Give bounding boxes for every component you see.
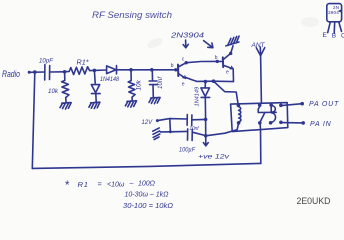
node PA OUT end [300, 102, 304, 106]
node Q2 base [216, 60, 219, 63]
svg-text:e: e [182, 82, 185, 88]
svg-text:3904: 3904 [328, 10, 339, 15]
diode D2 1N4148 (series) [107, 66, 117, 74]
relay RL1 box [231, 103, 288, 132]
svg-text:12V: 12V [142, 120, 154, 126]
label 10k (left) [48, 88, 59, 95]
transistor Q1 2N3904 [178, 63, 186, 79]
label 10k (rotated) [136, 79, 143, 90]
label PA IN [310, 121, 332, 128]
label Radio [2, 69, 20, 79]
wire Q2 collector to chassis [231, 46, 233, 54]
note R1 table row 2 [125, 192, 170, 199]
wire down to C5 row [169, 119, 172, 132]
node C5 row [169, 130, 172, 133]
wire node C to Q1 base [131, 69, 178, 71]
ground G3 [125, 101, 136, 107]
node A [63, 70, 67, 74]
svg-text:+ve 12v: +ve 12v [198, 154, 230, 161]
wire D2 to node C [117, 69, 132, 71]
svg-text:2E0UKD: 2E0UKD [297, 196, 331, 207]
node +12 top [204, 118, 208, 122]
antenna symbol [256, 47, 264, 56]
node PA IN end [301, 121, 305, 125]
wire box left edge [32, 72, 35, 168]
callsign 2E0UKD [297, 196, 331, 207]
faint scan smudges (background) [146, 17, 319, 50]
resistor R3 10k (vertical, mid) [128, 70, 135, 101]
node emitter junction [212, 79, 216, 83]
chassis ground G5 [226, 36, 239, 46]
TO-92 leg E [328, 22, 331, 33]
svg-text:RF Sensing switch: RF Sensing switch [92, 10, 172, 20]
svg-text:2N3904: 2N3904 [170, 33, 204, 40]
node box top-left junction [33, 70, 37, 74]
svg-text:R1: R1 [78, 180, 89, 189]
title RF Sensing switch [92, 10, 172, 20]
node Q1 collector [185, 61, 188, 64]
wire junction to relay coil [214, 81, 239, 105]
svg-text:e: e [226, 70, 229, 76]
label R1* [77, 60, 89, 67]
capacitor C1 10pF [45, 65, 50, 81]
svg-text:c: c [182, 57, 185, 63]
svg-text:Radio: Radio [2, 69, 20, 79]
svg-text:30-100 = 10kΩ: 30-100 = 10kΩ [123, 203, 174, 210]
svg-text:B: B [332, 32, 336, 39]
svg-text:10nf: 10nf [190, 126, 200, 132]
label +ve 12v [198, 154, 230, 161]
label 2N3904 with pointer arrows [170, 33, 204, 40]
node radio input [28, 71, 31, 74]
TO-92 package outline U1 [327, 4, 342, 22]
TO-92 pin labels E B C [323, 32, 344, 39]
node Q2 collector [229, 52, 232, 55]
ground G4 [149, 97, 160, 103]
transistor Q2 2N3904 [217, 53, 233, 69]
label ANT [251, 42, 266, 49]
wire antenna down [260, 56, 263, 103]
svg-text:PA OUT: PA OUT [309, 101, 339, 108]
svg-text:b: b [171, 63, 174, 69]
diode D3 1N4148 (vertical) [201, 82, 210, 120]
label 10nf (rotated) [157, 76, 164, 89]
resistor R1 (horizontal zigzag) [65, 67, 95, 75]
svg-text:10pF: 10pF [39, 58, 54, 65]
svg-text:–: – [129, 181, 134, 188]
TO-92 leg B [333, 22, 336, 33]
label 1N4149 (rotated) [195, 87, 201, 107]
wire Q1 collector to Q2 base [186, 61, 217, 62]
relay contact poles [258, 103, 283, 124]
squiggle ground G6 [160, 131, 170, 133]
wire coil return to +12 node [206, 123, 239, 136]
relay coil [237, 103, 241, 124]
ground G2 [89, 102, 100, 108]
Q2 pin letters [215, 55, 229, 76]
svg-text:ANT: ANT [251, 42, 266, 49]
svg-text:10k: 10k [48, 88, 59, 95]
label 10nf [190, 126, 200, 132]
note R1 table row 3 [123, 203, 174, 210]
label 100uF [179, 147, 196, 154]
svg-text:<10ω: <10ω [107, 182, 125, 189]
Q1 pin letters [171, 57, 185, 88]
node D3 top [204, 80, 208, 84]
resistor R2 10k (vertical) [62, 72, 69, 102]
svg-text:10k: 10k [136, 79, 143, 90]
wire PA OUT [281, 104, 302, 106]
node E [174, 68, 177, 71]
arrow to Q1 [183, 40, 188, 48]
wire +12 supply arrow [203, 119, 208, 145]
svg-text:100Ω: 100Ω [138, 181, 156, 188]
svg-text:*: * [65, 180, 70, 192]
capacitor C5 100uF [170, 129, 205, 141]
wire 12V to C4 [157, 119, 187, 121]
arrow to Q2 [204, 41, 213, 48]
note R1 table row 1 [65, 180, 156, 192]
TO-92 leg C [339, 22, 342, 31]
svg-text:E: E [323, 32, 328, 39]
label 12V [142, 120, 154, 126]
capacitor C2 10nF (vertical) [149, 70, 157, 97]
svg-text:100µF: 100µF [179, 147, 196, 154]
svg-text:1N4149: 1N4149 [195, 87, 201, 107]
svg-text:=: = [98, 182, 102, 189]
diode D1 (to ground) [91, 70, 100, 101]
node D (cap tap) [150, 68, 154, 72]
node +12 bottom [204, 134, 208, 138]
svg-text:10-30ω – 1kΩ: 10-30ω – 1kΩ [125, 192, 170, 199]
node B (R1 right) [93, 69, 97, 73]
wire PA IN [281, 122, 303, 124]
label 1N4148 [100, 77, 120, 83]
svg-text:10nf: 10nf [157, 76, 164, 89]
wire Q1 emitter rail [186, 78, 214, 82]
svg-text:1N4148: 1N4148 [100, 77, 120, 83]
node 12V feed [156, 119, 159, 122]
label 10pF [39, 58, 54, 65]
svg-text:PA IN: PA IN [310, 121, 332, 128]
ground G1 [60, 103, 71, 109]
node C [129, 68, 133, 72]
wire Q2 emitter down [214, 69, 234, 82]
label PA OUT [309, 101, 339, 108]
TO-92 package text 2N 3904 [328, 5, 341, 15]
wire relay to ground rail [259, 123, 262, 163]
svg-text:b: b [215, 55, 218, 61]
ground rail (bottom of box) [32, 163, 260, 168]
capacitor C4 10nf [187, 115, 206, 126]
svg-text:R1*: R1* [77, 60, 89, 67]
wire C1 to node A [50, 71, 65, 73]
wire node B to D2 [94, 69, 105, 71]
wire Radio input [29, 71, 44, 73]
